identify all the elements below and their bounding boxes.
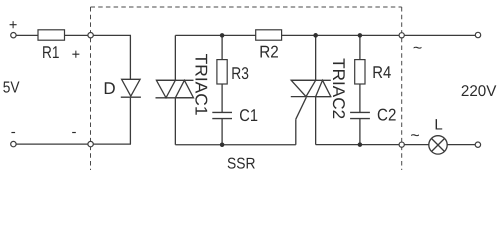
svg-text:~: ~ (413, 40, 422, 57)
wire: inner top wire right of R2 to right terminal (282, 34, 476, 36)
node boundary right bottom (399, 142, 404, 147)
svg-text:C2: C2 (377, 106, 396, 125)
lamp L circle (429, 136, 447, 154)
wire: R1 to boundary node (65, 34, 89, 36)
wire: inner top wire left of R2 (175, 34, 255, 36)
svg-text:-: - (11, 124, 16, 141)
capacitor C2 top plate (350, 111, 370, 113)
junction dot top R4 branch (358, 33, 363, 38)
svg-text:TRIAC2: TRIAC2 (329, 58, 348, 119)
svg-text:5V: 5V (3, 80, 20, 97)
triac TRIAC2 left triangle (291, 80, 315, 96)
junction dot bottom C2 branch (358, 142, 363, 147)
svg-text:R3: R3 (231, 64, 249, 83)
SSR dashed boundary right edge (401, 7, 403, 170)
wire: R3 branch upper (221, 35, 223, 59)
lamp L cross stroke 2 (432, 139, 445, 152)
capacitor C1 bottom plate (212, 118, 232, 120)
diode D triangle (122, 79, 141, 96)
SSR dashed boundary top edge (91, 6, 402, 8)
resistor R2 (256, 30, 282, 40)
wire: TRIAC2 gate diagonal (296, 97, 307, 119)
triac TRIAC2 bottom bar (291, 96, 331, 98)
svg-text:-: - (72, 124, 77, 141)
svg-text:TRIAC1: TRIAC1 (191, 54, 210, 116)
wire: TRIAC2 gate vertical stub (295, 119, 297, 145)
wire: output bottom wire TRIAC2 to lamp (316, 144, 429, 146)
svg-text:D: D (103, 79, 115, 98)
capacitor C2 bottom plate (350, 118, 370, 120)
svg-text:220V: 220V (461, 83, 497, 100)
node boundary left top (88, 33, 93, 38)
SSR dashed boundary left edge (90, 7, 92, 170)
wire: R4 branch upper (359, 35, 361, 59)
junction dot bottom C1 branch (220, 143, 225, 148)
terminal right top (475, 32, 480, 37)
resistor R1 (38, 30, 65, 40)
terminal right bottom (475, 142, 480, 147)
lamp L cross stroke 1 (432, 139, 445, 152)
svg-text:R2: R2 (259, 42, 279, 61)
svg-text:C1: C1 (239, 106, 258, 125)
wire: R3 to C1 (221, 84, 223, 112)
wire: bottom input wire node to - terminal (16, 143, 88, 145)
triac TRIAC1 right triangle (175, 80, 193, 98)
wire: TRIAC1 branch upper (174, 35, 176, 80)
junction dot top TRIAC2 branch (313, 33, 318, 38)
junction dot top R3 branch (220, 33, 225, 38)
wire: lamp to right bottom terminal (447, 144, 475, 146)
triac TRIAC2 right triangle (316, 80, 331, 96)
node boundary left bottom (88, 141, 93, 146)
wire: boundary node to diode branch corner (93, 34, 131, 36)
triac TRIAC1 bottom bar (156, 97, 194, 99)
wire: TRIAC2 branch upper (315, 35, 317, 80)
node boundary right top (399, 33, 404, 38)
triac TRIAC1 top bar (156, 79, 194, 81)
wire: TRIAC1 branch lower (174, 98, 176, 145)
wire: diode branch lower segment (129, 98, 131, 144)
svg-text:R4: R4 (372, 63, 391, 82)
svg-text:SSR: SSR (227, 155, 256, 170)
resistor R4 (355, 60, 365, 84)
wire: + terminal to R1 (16, 34, 38, 36)
wire: diode branch upper segment (129, 35, 131, 79)
svg-text:+: + (72, 47, 80, 63)
svg-text:+: + (9, 17, 17, 33)
wire: C2 to output bottom wire (359, 119, 361, 145)
wire: R4 to C2 (359, 84, 361, 112)
resistor R3 (217, 60, 227, 84)
terminal + input (11, 33, 16, 38)
wire: C1 to inner bottom wire (221, 119, 223, 145)
wire: TRIAC2 branch lower (315, 97, 317, 145)
wire: bottom input wire diode to node (93, 143, 131, 145)
wire: inner bottom wire TRIAC1 to gate stub (175, 144, 295, 146)
triac TRIAC2 top bar (291, 79, 331, 81)
diode D cathode bar (121, 96, 141, 98)
svg-text:~: ~ (410, 128, 419, 145)
terminal - input (11, 141, 16, 146)
triac TRIAC1 left triangle (156, 80, 175, 98)
svg-text:L: L (434, 116, 442, 133)
svg-text:R1: R1 (42, 43, 59, 62)
capacitor C1 top plate (212, 111, 232, 113)
